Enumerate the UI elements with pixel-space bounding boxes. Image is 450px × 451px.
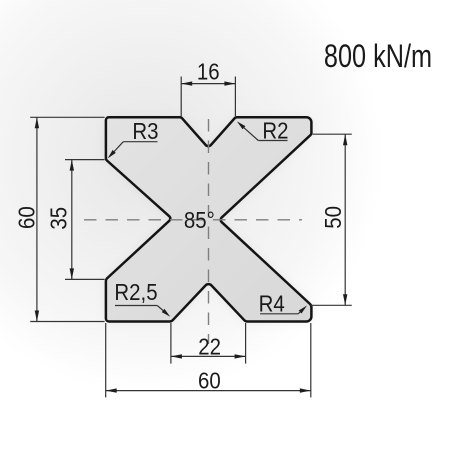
dimension 60 bottom: right extension line [310,323,312,397]
dimension 35: bottom arrowhead [70,268,74,279]
dimension 22: dimension line [171,355,246,357]
dimension 35: bottom extension line [65,278,105,280]
dimension 35: text [45,207,72,230]
radius label R4 text [259,290,285,317]
dimension 60 bottom: left extension line [105,323,107,397]
R2 leader line [240,124,258,140]
dimension 60 left: bottom arrowhead [35,311,39,322]
radius label R3 text [132,117,158,144]
dimension 16: dimension line [181,83,235,85]
svg-text:35: 35 [45,207,72,230]
dimension 60 bottom: text [198,367,221,394]
R2,5 leader line [157,306,167,315]
dimension 16: right extension line [234,77,236,117]
dimension 50: top extension line [313,133,352,135]
svg-text:60: 60 [13,206,40,229]
dimension 35: top arrowhead [70,160,74,171]
dimension 60 left: top extension line [30,116,104,118]
svg-text:60: 60 [198,367,221,394]
svg-text:R2,5: R2,5 [114,279,157,306]
dimension 50: bottom extension line [311,304,352,306]
capacity label 800 kN/m [324,39,432,75]
R4 leader arrowhead [299,306,307,314]
svg-text:16: 16 [197,58,220,85]
dimension 50: text [320,206,347,229]
vertical center line [208,119,210,344]
R2 leader underline [258,140,287,142]
svg-text:50: 50 [320,206,347,229]
radius label R2 text [262,117,288,144]
soft near glow behind die [106,117,312,321]
dimension 60 bottom: left arrowhead [106,388,117,392]
dimension 60 bottom: dimension line [106,390,311,392]
dimension 22: right arrowhead [235,354,246,358]
dimension 60 left: text [13,206,40,229]
dimension 16: left extension line [180,77,182,117]
R3 leader underline [123,141,157,143]
R3 leader line [111,142,124,155]
R2,5 leader arrowhead [162,309,171,317]
angle label 85 degrees [184,207,215,234]
R4 leader line [298,308,304,314]
dimension 60 left: bottom extension line [30,321,104,323]
dimension 50: top arrowhead [343,134,347,145]
svg-text:R4: R4 [259,290,285,317]
R4 leader underline [260,313,298,315]
dimension 50: bottom arrowhead [343,294,347,305]
horizontal center line [84,219,302,221]
dimension 22: left extension line [170,323,172,364]
dimension 22: text [198,333,221,360]
dimension 16: left arrowhead [181,81,192,85]
radius label R2,5 text [114,279,157,306]
dimension 60 left: top arrowhead [35,117,39,128]
dimension 22: right extension line [245,323,247,364]
svg-text:85°: 85° [184,207,215,234]
dimension 35: top extension line [65,159,105,161]
R2,5 leader underline [115,305,157,307]
dimension 16: right arrowhead [224,81,235,85]
dimension 16: text [197,58,220,85]
dimension 22: left arrowhead [171,354,182,358]
dimension 60 bottom: right arrowhead [300,388,311,392]
R2 leader arrowhead [237,121,246,129]
R3 leader arrowhead [108,150,116,158]
dimension 60 left: dimension line [36,117,38,321]
svg-text:R3: R3 [132,117,158,144]
svg-text:R2: R2 [262,117,288,144]
dimension 35: dimension line [71,160,73,280]
svg-text:800 kN/m: 800 kN/m [324,39,432,75]
die body (X-shaped 4-way press brake die cross-section) [106,117,312,321]
dimension 50: dimension line [344,134,346,305]
svg-text:22: 22 [198,333,221,360]
